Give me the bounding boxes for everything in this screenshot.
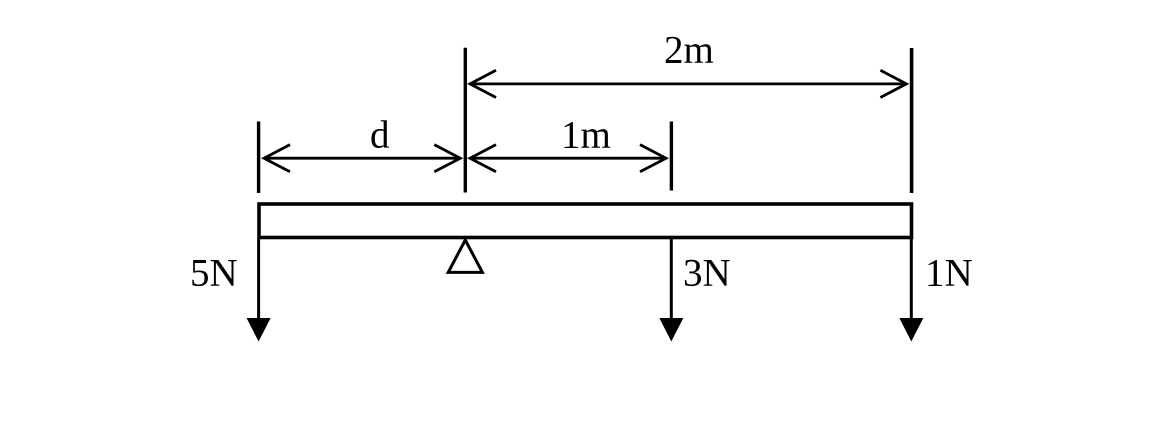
svg-text:5N: 5N [190, 252, 238, 295]
svg-text:3N: 3N [683, 252, 731, 295]
svg-text:d: d [370, 114, 390, 157]
dimension arrow d [264, 145, 460, 172]
tick fulcrum [464, 48, 467, 193]
beam (rectangle) [259, 204, 912, 238]
svg-text:2m: 2m [664, 29, 714, 72]
tick left end [257, 122, 260, 194]
svg-text:1N: 1N [925, 252, 973, 295]
dimension arrow 1m [470, 145, 666, 172]
tick 1m mark [670, 122, 673, 191]
dimension arrow 2m [470, 70, 906, 97]
fulcrum (triangle support) [448, 240, 482, 272]
force arrow 5N [247, 239, 271, 342]
force arrow 3N [659, 239, 683, 342]
svg-text:1m: 1m [561, 113, 611, 156]
force arrow 1N [899, 239, 923, 342]
tick right end [910, 48, 914, 193]
